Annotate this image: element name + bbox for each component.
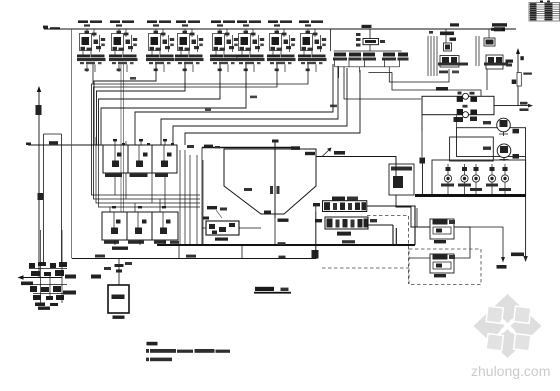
legend table text column blobs xyxy=(530,1,553,21)
return line label xyxy=(95,255,105,258)
dashed enclosure B xyxy=(409,249,481,285)
dosing pumps xyxy=(444,175,508,182)
blower room box xyxy=(422,96,494,114)
clarifier center pipe xyxy=(274,141,276,218)
inter-bank routing lines xyxy=(96,137,200,207)
chem mixer box xyxy=(363,39,379,45)
discharge line right xyxy=(525,157,527,258)
V1 top arrowhead xyxy=(37,86,41,92)
notes line 2 xyxy=(146,358,172,362)
return line pump blob xyxy=(312,250,319,259)
blower room label above xyxy=(436,87,448,91)
return bus 8 xyxy=(185,70,360,145)
tank feed valves xyxy=(115,264,124,267)
clarifier effluent label xyxy=(305,152,315,155)
filter feed cluster F verticals xyxy=(428,29,446,76)
return sludge line xyxy=(72,258,316,260)
watermark logo xyxy=(474,294,542,358)
cluster F label xyxy=(440,32,454,36)
blower outlet line xyxy=(494,105,530,107)
left influent vertical V1 xyxy=(38,90,40,277)
dashed enclosure A xyxy=(322,216,409,285)
clarifier bottom pipe xyxy=(274,214,276,245)
aeration bank 2 xyxy=(102,212,178,240)
pump cluster P3 xyxy=(146,20,175,72)
pump cluster P6 xyxy=(236,20,265,72)
drop from top cluster to return line xyxy=(71,29,73,259)
pump cluster P7 xyxy=(267,20,296,72)
outfall label xyxy=(21,282,33,286)
svg-text:zhulong.com: zhulong.com xyxy=(471,363,550,379)
dosing tank xyxy=(108,285,129,313)
haul-away line and arrow xyxy=(454,227,503,259)
dosing pump stems xyxy=(448,164,505,175)
pump cluster P4 xyxy=(175,20,204,72)
effluent branch arrow xyxy=(322,149,330,157)
belt press connections xyxy=(367,206,415,245)
effluent pump box xyxy=(389,164,414,195)
sludge/return cross ties xyxy=(179,245,242,259)
dosing pump valves xyxy=(446,167,508,171)
dosing pump labels xyxy=(441,184,511,192)
cluster F text dashes xyxy=(438,63,468,66)
bus label specks xyxy=(130,77,136,80)
pump cluster P2 xyxy=(109,20,138,72)
sludge box outlet xyxy=(202,227,261,229)
cluster G text dashes xyxy=(484,63,508,66)
clarifier center labels xyxy=(270,186,273,194)
bypass verticals V2 V3 xyxy=(44,134,62,263)
air bus 6 from P7 to bank2 xyxy=(94,64,278,199)
V1 label xyxy=(36,105,42,115)
mixer B label xyxy=(513,154,520,159)
effluent pump xyxy=(393,176,403,188)
chem mixer feed marks xyxy=(356,33,385,47)
clarifier top launder line xyxy=(202,147,300,149)
chem pump row text dashes xyxy=(333,58,409,61)
air bus 2 from P4 to bank1 xyxy=(97,64,186,145)
bank1 cell internals xyxy=(112,153,172,168)
tank inner label xyxy=(112,295,125,300)
clarifier tank body xyxy=(224,149,316,214)
feed drop to dosing row xyxy=(421,131,423,157)
bottom-left cluster frame lines xyxy=(29,230,67,303)
sludge treatment unit 1 xyxy=(430,219,455,243)
bottom-left cluster labels xyxy=(63,291,76,295)
bank1 cell stems and top valves xyxy=(115,140,165,162)
blower center label xyxy=(463,105,468,108)
tank bottom label xyxy=(113,316,125,319)
main influent line xyxy=(44,28,516,30)
mixer A xyxy=(497,118,511,132)
air header to blower room xyxy=(344,67,421,99)
notes heading xyxy=(147,342,158,346)
mixing tank nested box 1 xyxy=(457,128,526,157)
bank1 bottom text dashes xyxy=(105,174,122,177)
chem pump row xyxy=(334,53,408,57)
chem manifold xyxy=(334,50,402,52)
V1 mid tick xyxy=(38,193,44,200)
inlet line label xyxy=(49,141,58,144)
dosing pump row box xyxy=(432,160,526,195)
air bus 3 from P5 to bank1 xyxy=(99,64,221,145)
return bus 7 xyxy=(173,68,347,145)
sludge pump box internals xyxy=(209,223,235,234)
bottom-left pump cluster xyxy=(29,262,67,306)
return bus 5 xyxy=(135,64,333,145)
dosing pump row heavy base xyxy=(415,194,526,197)
inlet line to bank1 xyxy=(28,144,103,146)
sludge main line (thick) xyxy=(157,244,415,246)
air bus 5 from P8 to bank2 xyxy=(92,64,309,195)
bank right side verticals xyxy=(180,150,203,245)
bank2 cell stems and top valves xyxy=(114,212,163,229)
clarifier launder end label xyxy=(291,146,300,150)
blower feed drop from G header xyxy=(421,115,423,131)
legend table top right xyxy=(529,3,560,22)
sludge box bottom label xyxy=(215,238,228,241)
mixer feed marks xyxy=(483,121,491,124)
blower 2 xyxy=(463,112,469,118)
chem cluster E stem xyxy=(331,29,371,51)
air header to cluster G xyxy=(392,69,487,96)
sludge box top labels xyxy=(207,206,217,209)
outfall arrowhead xyxy=(18,275,24,279)
bank2 bottom text dashes xyxy=(104,241,119,244)
cluster G pump box xyxy=(486,55,503,69)
bank2 cell internals xyxy=(111,220,171,235)
chem row drops xyxy=(335,61,400,67)
sludge line label xyxy=(342,240,355,243)
title text blobs xyxy=(255,287,274,291)
pump cluster P5 xyxy=(210,20,239,72)
wire drop cluster P2 to aeration bank 2 xyxy=(121,64,124,212)
air bus 1 from P3 to bank1 xyxy=(94,64,156,145)
link from blower box down xyxy=(456,115,458,127)
belt press 1 xyxy=(313,197,367,212)
chem cluster E label above xyxy=(362,25,372,28)
clarifier bottom labels xyxy=(278,219,289,222)
cluster G valve box xyxy=(484,38,495,46)
clarifier top-left marks xyxy=(204,145,213,148)
title scale text xyxy=(281,288,289,291)
effluent pump outlet xyxy=(396,195,430,227)
notes line 1 xyxy=(146,349,230,353)
air bus 4 from P6 to bank1 xyxy=(101,64,246,145)
pump cluster P8 xyxy=(298,20,327,72)
mixer B xyxy=(497,144,511,158)
clarifier center top symbol xyxy=(272,140,279,143)
cluster G stem xyxy=(476,29,489,66)
belt press 2 xyxy=(315,217,377,236)
bank2 bottom stubs xyxy=(115,240,165,245)
mixer A label xyxy=(513,129,520,134)
aeration bank 1 xyxy=(103,145,177,173)
tee to dosing tank xyxy=(118,259,120,286)
effluent outfall line xyxy=(20,277,62,279)
sludge treatment unit 2 xyxy=(430,254,455,277)
bank1 to bank2 cell drops xyxy=(110,173,165,212)
wire drop P1 xyxy=(92,64,94,84)
cluster F valve box xyxy=(444,43,452,51)
effluent line label xyxy=(334,151,345,155)
return bus 6 xyxy=(161,66,338,145)
sludge pump box xyxy=(206,221,239,235)
title underline xyxy=(254,292,291,294)
blower 1 xyxy=(463,93,469,99)
pump cluster P1 xyxy=(77,20,106,72)
clarifier outer left wall xyxy=(201,148,203,246)
influent start marks xyxy=(43,26,48,29)
air header to blower filter F xyxy=(389,69,449,82)
clarifier effluent line xyxy=(316,157,396,165)
cluster F pump box xyxy=(440,56,459,68)
mixing tank nested box 2 xyxy=(450,137,494,161)
unit interconnect xyxy=(409,208,470,258)
cluster G label above xyxy=(492,23,507,26)
vent riser xyxy=(517,52,519,106)
